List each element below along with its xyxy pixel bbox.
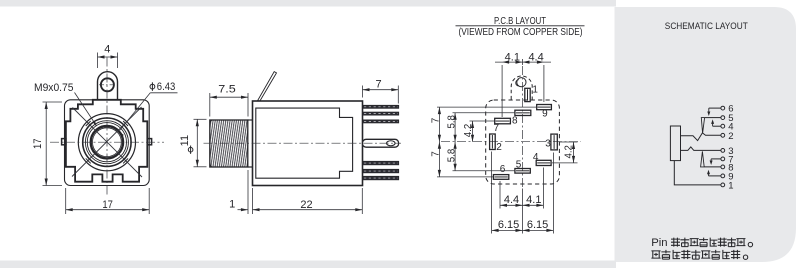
wire pin 4 break arrow <box>713 125 721 127</box>
svg-text:4: 4 <box>728 122 733 133</box>
dimension 17 width bottom <box>65 188 67 214</box>
svg-text:9: 9 <box>728 171 733 182</box>
side view pin top 1 <box>363 105 399 108</box>
wire pin 1 sleeve <box>674 161 721 185</box>
pcb dimension 6.15 6.15 bottom <box>491 152 493 234</box>
terminal 9 <box>721 174 725 178</box>
svg-text:7: 7 <box>431 117 442 123</box>
front view body face stepped outline <box>66 100 147 182</box>
terminal 6 <box>721 106 725 110</box>
side view pin bottom 1 <box>363 161 399 165</box>
front view left edge tab <box>62 139 66 145</box>
pcb layout title underline <box>456 25 585 27</box>
dimension 22 body length <box>252 188 254 214</box>
pcb pad pin 8 <box>515 110 531 115</box>
dimension 4 lug width <box>97 53 99 69</box>
svg-text:5.8: 5.8 <box>446 148 457 162</box>
pcb horizontal centerline <box>441 141 581 143</box>
side view thread end chamfer <box>210 120 212 123</box>
pcb pad pin 7 <box>495 118 511 124</box>
svg-text:5: 5 <box>516 159 522 170</box>
svg-text:6.43: 6.43 <box>157 81 176 93</box>
front view vertical centerline <box>106 58 108 196</box>
terminal 7 <box>721 157 725 161</box>
side view solder lug diagonal <box>258 72 277 101</box>
svg-text:4.4: 4.4 <box>528 51 543 63</box>
pcb pad pin 3 <box>551 134 557 150</box>
front view lug hole horizontal centerline tick <box>99 84 116 86</box>
svg-text:9: 9 <box>542 109 548 120</box>
svg-text:SCHEMATIC LAYOUT: SCHEMATIC LAYOUT <box>665 21 748 32</box>
svg-text:6.15: 6.15 <box>527 219 548 231</box>
gray card right panel <box>615 7 797 262</box>
front view horizontal centerline <box>50 141 164 143</box>
svg-text:22: 22 <box>300 199 312 211</box>
svg-text:(VIEWED FROM COPPER SIDE): (VIEWED FROM COPPER SIDE) <box>459 27 583 38</box>
gray band top edge <box>0 0 616 7</box>
front view concentric circle nut <box>83 118 131 166</box>
svg-text:4.4: 4.4 <box>504 194 519 206</box>
svg-text:3: 3 <box>545 139 551 150</box>
svg-text:4.1: 4.1 <box>505 51 520 63</box>
wire pin 8 with contact spring wedge <box>705 166 721 168</box>
pcb dimension 4.4 4.1 bottom <box>499 181 501 209</box>
side view threaded bushing <box>210 120 248 167</box>
dimension 7 pin length <box>362 86 364 98</box>
terminal 1 <box>721 183 725 187</box>
jack body rectangle <box>670 126 680 161</box>
svg-text:11: 11 <box>179 135 191 146</box>
gray band bottom edge <box>0 261 616 268</box>
svg-text:7: 7 <box>431 151 442 157</box>
pcb dimension 4.2 left <box>472 121 474 142</box>
svg-text:6.15: 6.15 <box>498 219 519 231</box>
side view inner housing outline <box>256 108 353 178</box>
svg-text:4.2: 4.2 <box>563 145 574 159</box>
pcb pad pin 1 <box>525 88 530 101</box>
label dia 6.43 with leader <box>150 82 155 91</box>
svg-text:8: 8 <box>512 115 518 126</box>
terminal 2 <box>721 133 725 137</box>
side view pin bottom 2 <box>363 169 399 173</box>
dimension 7.5 thread length <box>209 93 211 117</box>
svg-text:Pin: Pin <box>651 237 667 249</box>
terminal 8 <box>721 165 725 169</box>
wire pin 9 break arrow <box>709 175 721 177</box>
svg-text:4.2: 4.2 <box>463 123 474 137</box>
pcb body dashed outline <box>486 100 560 184</box>
svg-text:4.1: 4.1 <box>526 194 541 206</box>
side view bushing neck lines <box>248 119 253 121</box>
terminal 4 <box>721 124 725 128</box>
side view pin top 3 <box>363 120 399 123</box>
svg-text:4: 4 <box>533 152 539 163</box>
side view pin bottom 3 <box>363 176 399 180</box>
front view mounting lug tab <box>98 72 118 100</box>
pcb extension lines left dims <box>437 106 538 108</box>
svg-text:1: 1 <box>532 85 538 96</box>
front view inner hole circle <box>93 128 122 157</box>
terminal 5 <box>721 116 725 120</box>
svg-text:7: 7 <box>376 78 382 90</box>
wire pin 5 with contact spring wedge <box>705 117 721 119</box>
pcb vertical centerline <box>522 66 524 188</box>
svg-text:7: 7 <box>494 123 500 134</box>
svg-text:1: 1 <box>229 199 235 211</box>
wire pin 3 ring contact <box>681 147 721 151</box>
svg-text:5.8: 5.8 <box>446 115 457 129</box>
dimension 17 height left <box>43 101 63 103</box>
pcb lug dashed outline <box>511 76 532 100</box>
wire pin 6 break arrow <box>709 107 721 109</box>
front view diagonal cross line 2 <box>72 107 142 177</box>
front view concentric circle bushing outer <box>78 114 135 171</box>
pcb dimension 7 7 left <box>438 107 440 177</box>
svg-text:M9x0.75: M9x0.75 <box>34 82 74 94</box>
svg-text:17: 17 <box>102 199 113 211</box>
svg-text:4: 4 <box>104 44 110 56</box>
dimension 1 bushing gap <box>247 170 249 214</box>
terminal 3 <box>721 149 725 153</box>
side view middle flat pin with hole <box>363 139 399 147</box>
pcb pad pin 4 <box>536 160 551 165</box>
front view concentric circle thread inner <box>87 123 126 162</box>
front view outer flange rounded square <box>65 100 150 186</box>
pcb pad pin 6 <box>493 175 508 180</box>
svg-text:7.5: 7.5 <box>218 84 236 96</box>
side view pin top 2 <box>363 112 399 115</box>
pcb pad pin 5 <box>515 169 530 174</box>
front view entry hole bold circle <box>91 126 123 158</box>
svg-text:2: 2 <box>496 142 502 153</box>
wire pin 7 break arrow <box>711 158 721 160</box>
front view diagonal cross line 1 <box>73 108 143 178</box>
front view right edge tab <box>147 139 151 145</box>
front view lug hole <box>101 78 114 91</box>
front view concentric circle thread outer <box>85 121 128 164</box>
pcb lug hole circle pin 1 region <box>517 78 526 87</box>
dimension dia 11 <box>194 118 207 120</box>
wire pin 2 tip contact <box>681 133 721 141</box>
front view diagonal tick marks <box>86 121 91 126</box>
svg-text:6: 6 <box>500 164 506 175</box>
svg-text:6: 6 <box>728 104 733 115</box>
side view main body outline <box>253 101 363 186</box>
note text line 2 see attached circuit diagram <box>651 251 660 258</box>
pcb dimension 4.2 right <box>559 141 578 143</box>
side view horizontal centerline <box>204 142 402 144</box>
pcb pad pin 9 <box>537 105 552 110</box>
pcb dimension 4.1 4.4 top <box>501 65 503 117</box>
svg-text:17: 17 <box>32 138 44 149</box>
pcb pad pin 2 <box>490 134 496 150</box>
pcb dimension 5.8 5.8 left <box>454 113 456 171</box>
